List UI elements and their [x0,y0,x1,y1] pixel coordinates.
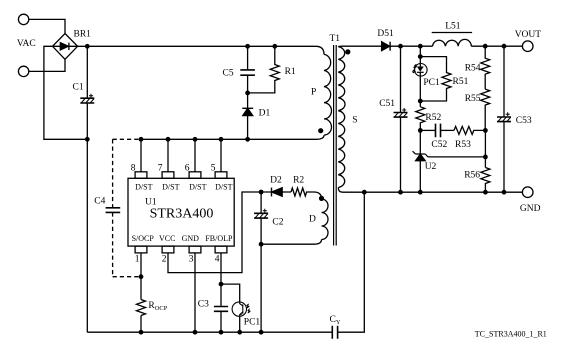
wire pin 8 [140,139,142,172]
wire HV top rail [78,45,316,47]
wire drain bus [141,138,316,140]
diode D51 [382,42,433,51]
svg-text:S/OCP: S/OCP [132,234,155,243]
terminal VAC bottom [18,66,28,76]
svg-text:D/ST: D/ST [215,183,232,192]
wire left bus upper [86,46,88,98]
node D polarity dot [319,196,324,201]
svg-text:ROCP: ROCP [148,301,167,312]
wire left bus lower [86,103,88,332]
svg-text:C3: C3 [198,299,209,309]
node pin3 ground [193,330,198,335]
svg-text:R1: R1 [285,67,296,77]
node pin4 branch [219,282,224,287]
node R55 bottom [483,128,488,133]
node C5 top [245,44,250,49]
svg-text:D1: D1 [259,109,271,119]
svg-text:PC1: PC1 [244,318,261,328]
wire divider middle [484,130,486,167]
node R1 top [272,44,277,49]
svg-text:1: 1 [135,255,140,265]
svg-text:R51: R51 [453,77,469,87]
node bridge output [85,44,90,49]
svg-text:C2: C2 [272,218,283,228]
svg-text:L51: L51 [445,22,461,32]
capacitor C53 [497,46,511,192]
node PC1 branch top [418,44,423,49]
node C53 bottom [502,190,507,195]
wire PC1 collector [221,284,240,302]
svg-text:D51: D51 [377,29,394,39]
capacitor C3 [214,307,228,312]
svg-text:R55: R55 [465,94,481,104]
wire bridge negative to ground bus [44,46,87,139]
capacitor C51 [394,46,408,192]
node R51 bottom [418,99,423,104]
pin 4 box [215,246,227,253]
node C53 top [502,44,507,49]
shunt regulator U2 [413,130,429,192]
node ref tap [483,155,488,160]
svg-text:D/ST: D/ST [189,183,206,192]
pin 8 box [135,172,147,179]
svg-text:CY: CY [330,315,341,326]
node C51 top [398,44,403,49]
resistor R53 [454,126,485,134]
svg-text:R53: R53 [455,140,471,150]
transformer T1 core [334,45,337,246]
wire U2 ref [428,156,485,158]
wire pin 7 [167,139,169,172]
svg-text:T1: T1 [330,34,341,44]
svg-text:R52: R52 [425,113,441,123]
svg-text:C53: C53 [516,116,532,126]
diode D1 [242,93,253,139]
svg-text:R2: R2 [293,176,304,186]
op IC U1 body [128,178,234,246]
wire C2 to ground [260,244,262,332]
terminal VOUT [522,41,533,52]
svg-text:FB/OLP: FB/OLP [205,234,233,243]
wire pin 5 [220,139,222,172]
capacitor C5 [240,46,255,93]
svg-text:C5: C5 [223,68,234,78]
node left bus joint [85,137,90,142]
node R51 branch top [418,54,423,59]
wire ground rail right segment [338,192,365,332]
svg-text:3: 3 [189,255,194,265]
bridge rectifier BR1 [53,34,78,60]
pin 1 box [135,246,147,253]
pin 7 box [162,172,174,179]
svg-text:2: 2 [162,255,167,265]
pin 2 box [162,246,174,253]
node C2 ground [259,330,264,335]
wire pin 4 FB [220,253,222,332]
wire secondary bottom rail [343,191,523,193]
node S polarity dot [345,49,350,54]
node pin8 bus [139,137,144,142]
inductor L51 [432,33,523,47]
resistor R54 [481,46,490,89]
svg-text:R56: R56 [464,171,480,181]
svg-text:VCC: VCC [159,234,175,243]
svg-text:U2: U2 [425,162,437,172]
svg-text:VOUT: VOUT [515,30,542,40]
node PC1 ground [237,330,242,335]
wire PC1 LED branch [419,46,421,107]
terminal VAC top [18,14,28,24]
node VCC aux [259,190,264,195]
svg-text:C4: C4 [94,196,105,206]
node pin1 ground [139,330,144,335]
resistor R_OCP [137,300,146,316]
winding D auxiliary [261,192,328,244]
terminal GND [522,187,533,198]
resistor R55 [481,89,490,130]
wire pin 3 GND [194,253,196,332]
wire dashed link to pin8 [113,138,141,140]
pin 6 box [189,172,201,179]
wire pin 2 VCC [168,192,261,273]
resistor R56 [481,168,490,193]
svg-text:4: 4 [215,255,220,265]
svg-text:S: S [352,116,357,126]
node pin6 bus [193,137,198,142]
node pin7 bus [166,137,171,142]
pin 5 box [215,172,227,179]
svg-text:8: 8 [131,163,136,173]
svg-text:P: P [311,88,316,98]
wire secondary top rail [343,45,382,47]
wire bottom ground rail [87,331,332,333]
svg-text:GND: GND [182,234,200,243]
node D1 drain bus [245,137,250,142]
svg-text:C1: C1 [73,83,84,93]
node R54 top [483,44,488,49]
svg-text:C52: C52 [431,140,447,150]
diode D2 [261,188,291,197]
svg-text:C51: C51 [379,99,395,109]
resistor R1 [248,46,280,93]
svg-text:STR3A400: STR3A400 [150,206,214,221]
wire PC1 emitter [239,316,241,332]
svg-text:GND: GND [520,204,541,214]
wire VAC top to bridge [29,19,65,33]
svg-text:TC_STR3A400_1_R1: TC_STR3A400_1_R1 [475,330,547,339]
svg-text:PC1: PC1 [423,78,440,88]
svg-text:D: D [309,215,316,225]
node P polarity dot [318,128,323,133]
node R56 bottom [483,190,488,195]
node R52 bottom [418,128,423,133]
resistor R51 [420,57,451,101]
pin 3 box [189,246,201,253]
capacitor C2 [254,192,268,244]
svg-text:7: 7 [158,163,163,173]
svg-text:D/ST: D/ST [135,183,152,192]
svg-text:D/ST: D/ST [162,183,179,192]
svg-text:5: 5 [211,163,216,173]
capacitor C4 [106,208,121,213]
optocoupler PC1 phototransistor [232,302,250,316]
capacitor CY [332,326,337,339]
winding P primary [316,46,332,139]
capacitor C1 [80,94,94,103]
optocoupler PC1 LED [412,64,427,77]
svg-text:6: 6 [185,163,190,173]
node clamp bottom [245,91,250,96]
resistor R52 [416,107,425,131]
wire dashed C4 branch [113,139,141,276]
svg-text:BR1: BR1 [74,29,92,39]
node C2 bottom [259,242,264,247]
node pin5 bus [219,137,224,142]
wire pin 6 [194,139,196,172]
capacitor C52 [420,124,454,138]
wire pin 1 to ground rail [140,253,142,332]
node U2 anode [418,190,423,195]
node pin1 dashed joint [139,274,144,279]
resistor R2 [291,188,314,196]
node C51 bottom [398,190,403,195]
svg-text:R54: R54 [465,63,481,73]
node gnd drop [362,190,367,195]
svg-text:D2: D2 [270,176,282,186]
winding S secondary [338,46,345,192]
svg-text:VAC: VAC [17,39,36,49]
node C3 ground [219,330,224,335]
wire VAC bottom to bridge [29,59,65,71]
